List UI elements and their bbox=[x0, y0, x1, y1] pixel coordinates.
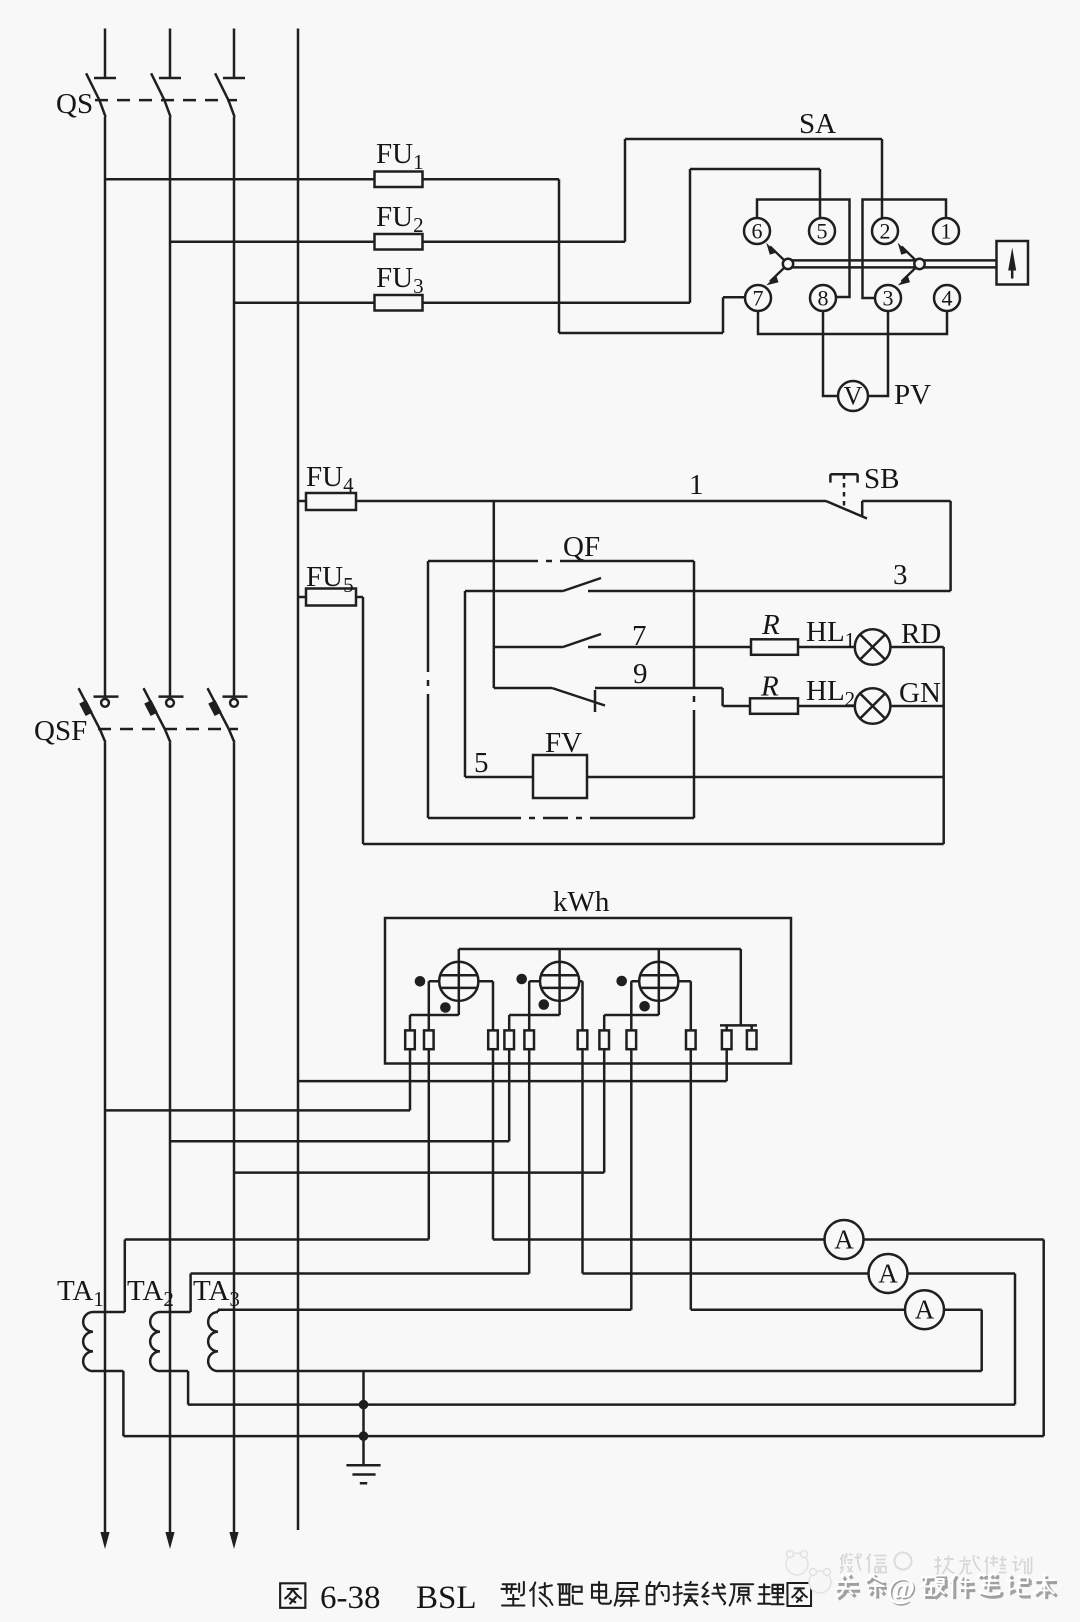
svg-text:FU2: FU2 bbox=[376, 201, 424, 237]
svg-text:PV: PV bbox=[894, 379, 931, 411]
svg-text:9: 9 bbox=[633, 658, 648, 690]
svg-text:2: 2 bbox=[880, 219, 891, 244]
svg-text:HL1: HL1 bbox=[806, 616, 855, 652]
svg-text:SA: SA bbox=[799, 108, 836, 140]
svg-text:1: 1 bbox=[689, 469, 704, 501]
svg-text:5: 5 bbox=[474, 747, 489, 779]
svg-text:BSL: BSL bbox=[416, 1580, 477, 1616]
svg-text:7: 7 bbox=[632, 620, 647, 652]
svg-text:@: @ bbox=[887, 1571, 916, 1606]
svg-text:FU4: FU4 bbox=[306, 461, 354, 497]
svg-text:FU3: FU3 bbox=[376, 262, 424, 298]
svg-text:4: 4 bbox=[942, 286, 953, 311]
svg-text:FV: FV bbox=[545, 727, 582, 759]
svg-text:7: 7 bbox=[753, 286, 764, 311]
svg-text:5: 5 bbox=[817, 219, 828, 244]
svg-text:8: 8 bbox=[818, 286, 829, 311]
svg-text:3: 3 bbox=[883, 286, 894, 311]
svg-text:FU1: FU1 bbox=[376, 138, 424, 174]
svg-text:HL2: HL2 bbox=[806, 675, 855, 711]
svg-text:GN: GN bbox=[899, 677, 941, 709]
svg-text:V: V bbox=[844, 382, 863, 411]
svg-text:1: 1 bbox=[941, 219, 952, 244]
svg-text:QS: QS bbox=[56, 88, 93, 120]
svg-text:SB: SB bbox=[864, 463, 899, 495]
svg-text:6: 6 bbox=[752, 219, 763, 244]
svg-text:RD: RD bbox=[901, 618, 941, 650]
svg-text:TA2: TA2 bbox=[127, 1275, 174, 1311]
svg-text:R: R bbox=[760, 671, 779, 703]
svg-text:QF: QF bbox=[563, 531, 600, 563]
svg-text:kWh: kWh bbox=[553, 886, 610, 918]
svg-text:3: 3 bbox=[893, 559, 908, 591]
svg-text:FU5: FU5 bbox=[306, 561, 354, 597]
svg-text:QSF: QSF bbox=[34, 715, 87, 747]
svg-text:TA1: TA1 bbox=[57, 1275, 104, 1311]
svg-text:A: A bbox=[834, 1225, 854, 1255]
svg-text:6-38: 6-38 bbox=[320, 1580, 381, 1616]
svg-text:A: A bbox=[878, 1259, 898, 1289]
svg-text:A: A bbox=[915, 1295, 935, 1325]
svg-text:R: R bbox=[761, 609, 780, 641]
